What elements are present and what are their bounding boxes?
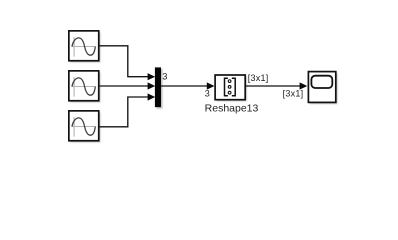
sine wave source 2	[69, 71, 101, 103]
svg-text:[3x1]: [3x1]	[283, 89, 304, 99]
svg-text:Reshape13: Reshape13	[205, 103, 259, 115]
wire from sine 1 to mux input 1	[100, 46, 149, 77]
mux block	[155, 67, 163, 108]
sine wave source 1	[69, 31, 101, 63]
wire from sine 3 to mux input 3	[100, 97, 149, 127]
svg-text:[3x1]: [3x1]	[248, 73, 269, 83]
arrowhead mux input 2	[148, 82, 156, 89]
wire from sine 2 to mux input 2	[100, 85, 149, 87]
arrowhead mux input 1	[148, 73, 156, 80]
svg-text:3: 3	[205, 89, 210, 99]
wire from Reshape13 to scope	[246, 85, 300, 87]
scope block	[308, 72, 337, 104]
arrowhead scope input	[300, 82, 308, 89]
arrowhead mux input 3	[148, 93, 156, 100]
sine wave source 3	[69, 111, 101, 143]
svg-text:3: 3	[162, 72, 167, 82]
arrowhead reshape input	[207, 82, 215, 89]
reshape block Reshape13	[215, 75, 247, 101]
wire from mux to Reshape13	[161, 85, 207, 87]
